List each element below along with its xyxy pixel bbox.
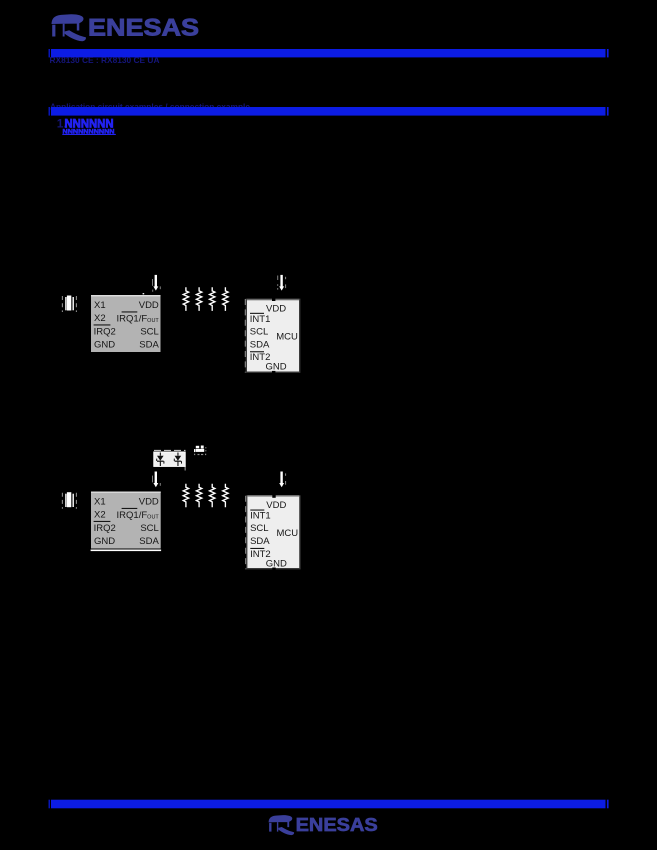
pull-up resistor R4 (circuit 2): [223, 484, 228, 508]
VDD arrow above MCU (circuit 1): [277, 275, 286, 291]
svg-text:RX8130 CE : RX8130 CE UA: RX8130 CE : RX8130 CE UA: [50, 55, 160, 65]
schottky diode pair box D1 (circuit 2): [154, 450, 186, 470]
svg-text:SDA: SDA: [250, 339, 270, 350]
battery BT1 (circuit 2): [194, 446, 206, 456]
svg-text:VDD: VDD: [139, 300, 159, 311]
svg-text:SDA: SDA: [139, 339, 159, 350]
pull-up resistor R1 (circuit 1): [183, 287, 188, 311]
svg-text:SCL: SCL: [140, 326, 158, 337]
Renesas logo (bottom): [269, 815, 378, 835]
MCU U2 (circuit 1, white box): [246, 298, 299, 373]
footer bar: [49, 800, 609, 809]
RTC U1 pin labels: [94, 300, 160, 350]
crystal X'tal (circuit 1): [62, 296, 76, 313]
pull-up resistor R1 (circuit 2): [183, 484, 188, 508]
pull-up resistor R4 (circuit 1): [223, 287, 228, 311]
svg-text:GND: GND: [266, 558, 287, 569]
VDD arrow above RTC (circuit 1): [152, 275, 161, 292]
svg-text:MCU: MCU: [277, 528, 299, 539]
blue link heading lines: [57, 117, 116, 136]
MCU U2 (circuit 2, white box): [247, 495, 300, 570]
pull-up resistor R2 (circuit 1): [196, 287, 201, 311]
RTC IC U1 (circuit 1, gray box): [91, 293, 161, 352]
VDD arrow above MCU (circuit 2): [279, 472, 286, 488]
svg-text:X2: X2: [94, 313, 106, 324]
MCU pin labels (circuit 2): [250, 500, 298, 569]
MCU left dashed wire remnants (circuit 2): [245, 496, 247, 570]
VDD arrow above RTC (circuit 2): [152, 472, 161, 488]
MCU U1 left dashed wire remnants (circuit 1): [244, 299, 246, 373]
svg-text:GND: GND: [266, 362, 287, 373]
RTC IC U1 (circuit 2, gray box): [91, 492, 162, 552]
svg-text:IRQ2: IRQ2: [94, 523, 116, 534]
svg-text:SDA: SDA: [139, 536, 159, 547]
svg-text:SCL: SCL: [250, 326, 268, 337]
svg-text:INT1: INT1: [250, 314, 271, 325]
svg-text:INT1: INT1: [250, 511, 271, 522]
svg-text:X2: X2: [94, 510, 106, 521]
svg-text:GND: GND: [94, 536, 115, 547]
header bar 2: [49, 107, 609, 116]
header bar 1: [49, 49, 609, 57]
svg-text:ENESAS: ENESAS: [296, 815, 378, 835]
pull-up resistor R2 (circuit 2): [196, 484, 201, 508]
svg-text:X1: X1: [94, 300, 106, 311]
VDD rail remnant above diode box: [154, 449, 186, 451]
pull-up resistor R3 (circuit 1): [210, 287, 215, 311]
svg-text:X1: X1: [94, 497, 106, 508]
svg-text:ENESAS: ENESAS: [88, 15, 199, 42]
svg-text:IRQ2: IRQ2: [94, 326, 116, 337]
svg-text:SDA: SDA: [250, 536, 270, 547]
svg-text:MCU: MCU: [276, 331, 298, 342]
crystal X'tal (circuit 2): [62, 492, 76, 509]
RTC U1 pin labels (circuit 2): [94, 497, 160, 547]
MCU pin labels (circuit 1): [250, 304, 298, 373]
svg-text:SCL: SCL: [250, 523, 268, 534]
svg-text:SCL: SCL: [140, 523, 158, 534]
svg-text:VDD: VDD: [139, 497, 159, 508]
svg-text:GND: GND: [94, 339, 115, 350]
Renesas logo (top): [52, 14, 200, 41]
pull-up resistor R3 (circuit 2): [210, 484, 215, 508]
